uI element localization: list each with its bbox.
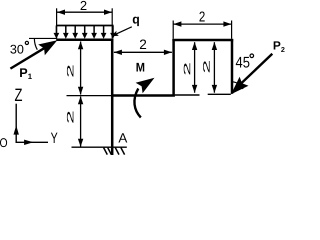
svg-text:2: 2: [80, 0, 87, 13]
right frame inner dimension 2 (right): [203, 42, 217, 93]
force P2 (45 deg): [231, 54, 272, 95]
svg-text:2: 2: [139, 37, 147, 52]
moment M curved arrow: [134, 78, 154, 118]
distributed load q: top line: [56, 25, 114, 27]
30 deg angle arc: [34, 39, 37, 50]
leader line from q to beam: [111, 27, 132, 36]
svg-text:2: 2: [199, 9, 205, 25]
ground line at support A: [72, 146, 127, 148]
label A (support): [118, 130, 127, 145]
distributed load q: arrows: [54, 26, 116, 39]
svg-text:Y: Y: [51, 130, 58, 147]
dimension 2 between columns (horizontal, mid height): [114, 37, 172, 55]
label Z axis: [15, 85, 23, 105]
beam middle (column to right frame): [111, 94, 175, 97]
dimension 2 above top-left beam: [57, 0, 113, 39]
extension segment under left inner dimension: [175, 94, 200, 96]
svg-text:P: P: [19, 66, 27, 80]
svg-text:A: A: [118, 130, 127, 145]
svg-text:1: 1: [28, 72, 33, 81]
30 deg reference line: [29, 37, 56, 39]
svg-text:45: 45: [236, 55, 250, 72]
svg-text:M: M: [136, 61, 145, 75]
label P1: [19, 66, 32, 81]
label 30deg: [10, 41, 29, 56]
axis Z arrow: [14, 104, 19, 143]
label M: [136, 61, 145, 75]
45 deg angle arc: [231, 82, 243, 89]
extension line left of column at middle beam level: [67, 95, 112, 97]
extension segment under right inner dimension: [208, 93, 231, 95]
svg-text:O: O: [0, 136, 8, 150]
support A hatching: [104, 148, 125, 155]
svg-text:30: 30: [10, 43, 24, 57]
right frame top beam: [172, 39, 233, 42]
axis Y arrow: [16, 140, 49, 145]
right frame inner dimension 2 (left): [184, 42, 198, 93]
beam top-left (loaded with q): [56, 38, 113, 41]
label O (origin): [0, 136, 8, 150]
column (vertical member to support A): [111, 39, 114, 156]
label 45deg: [236, 54, 254, 72]
right frame right leg: [231, 39, 234, 94]
vertical dimension line left of column: lower segment 2: [67, 96, 83, 147]
svg-text:2: 2: [281, 45, 285, 54]
dimension 2 above right frame: [173, 9, 231, 39]
vertical dimension line left of column: upper segment 2: [67, 41, 83, 94]
svg-text:P: P: [273, 39, 281, 53]
force P1 (30 deg): [10, 40, 57, 68]
svg-text:q: q: [132, 12, 140, 27]
svg-text:Z: Z: [15, 85, 23, 105]
label q: [132, 12, 140, 27]
right frame left leg: [172, 39, 175, 97]
label Y axis: [51, 130, 58, 147]
label P2: [273, 39, 285, 55]
